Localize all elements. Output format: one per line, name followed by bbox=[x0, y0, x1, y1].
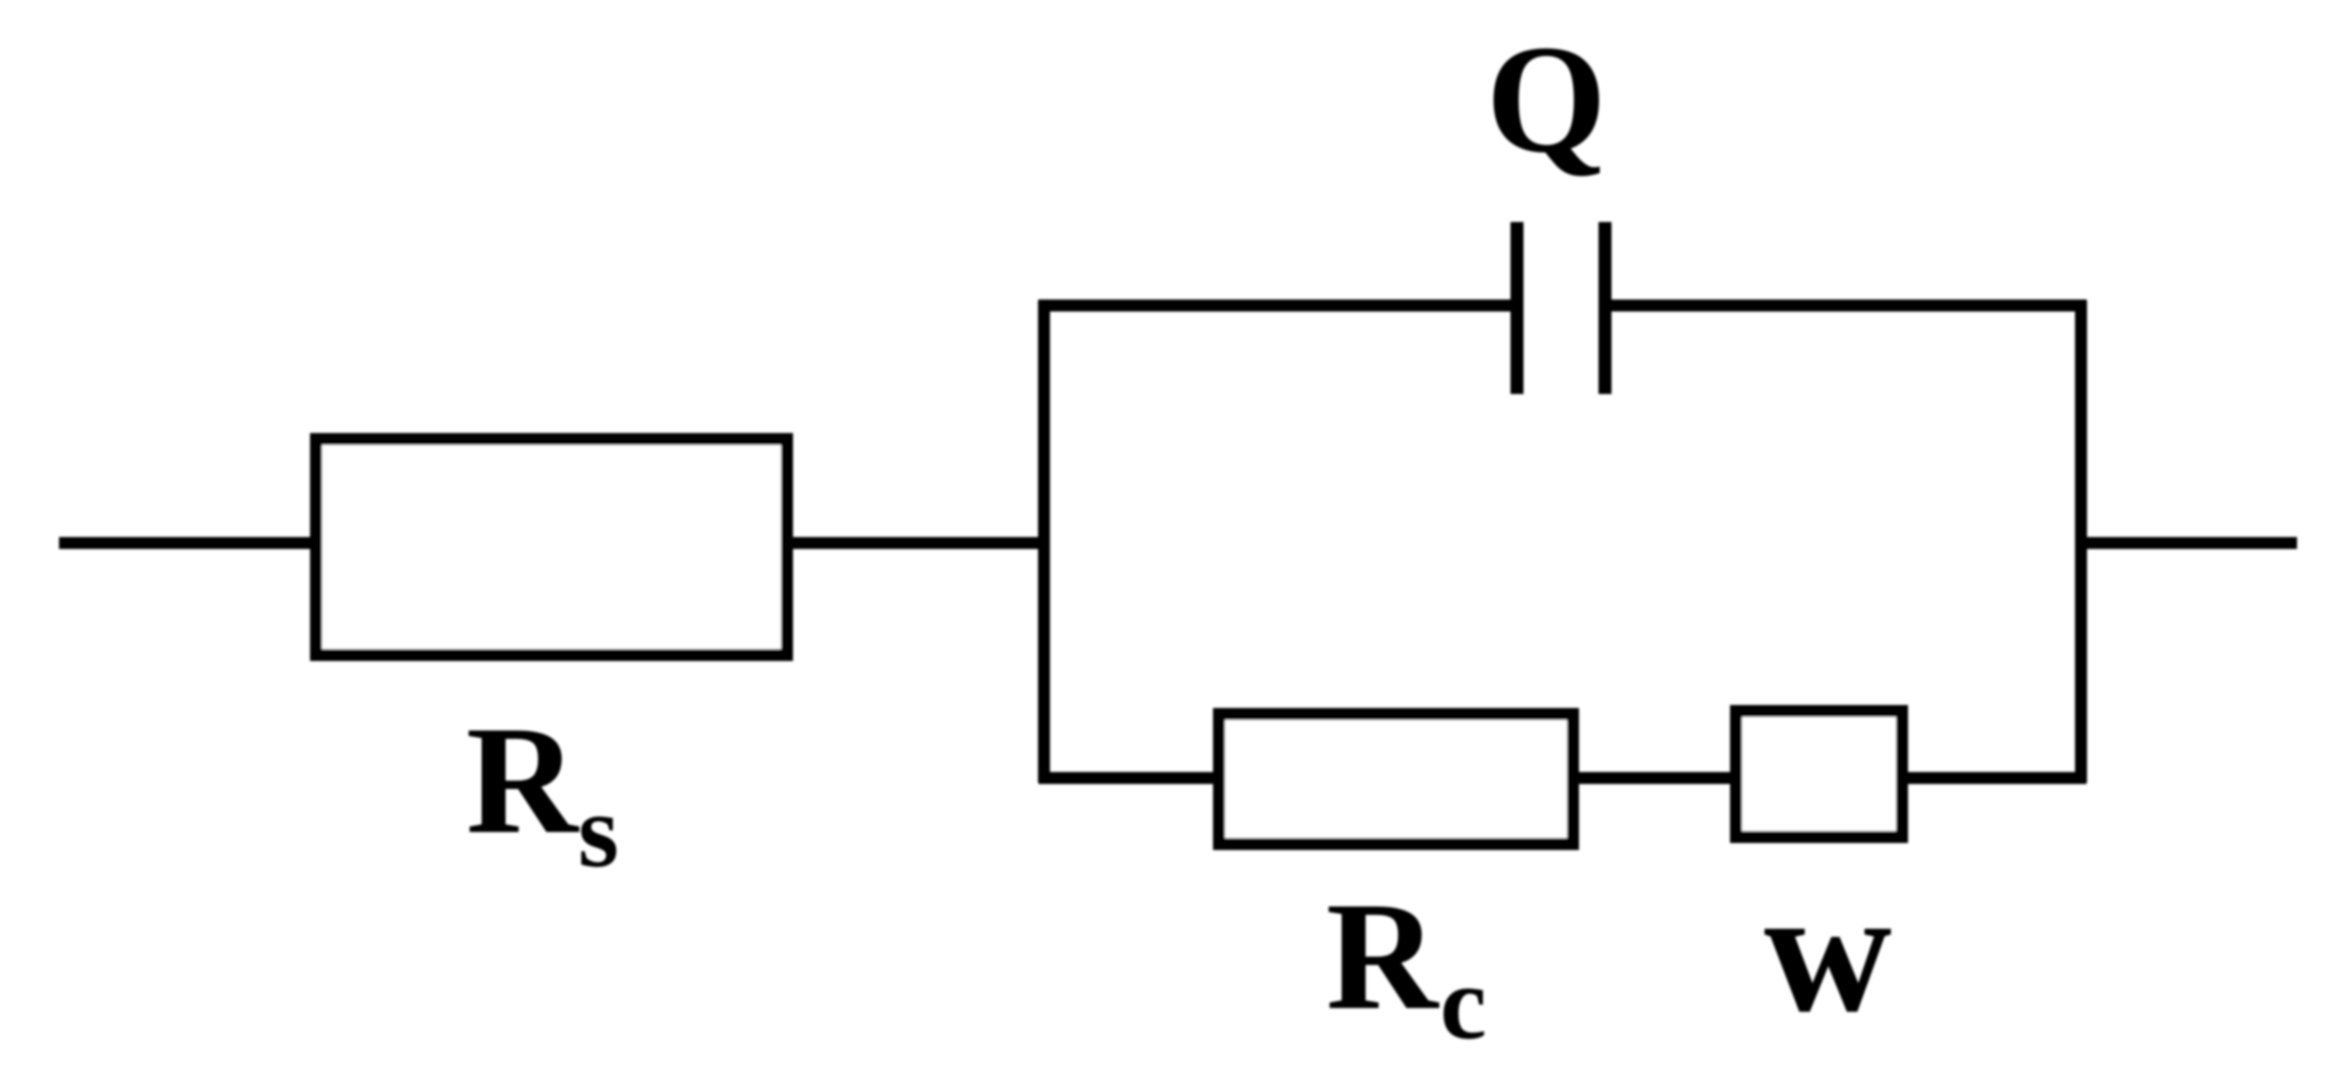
wire: Rs to parallel block bbox=[787, 537, 1049, 549]
wire: W to right vertical bbox=[1897, 772, 2087, 784]
label Rc bbox=[1326, 870, 1487, 1061]
wire: parallel block right vertical bbox=[2075, 300, 2087, 783]
svg-text:Q: Q bbox=[1486, 13, 1607, 185]
svg-text:w: w bbox=[1764, 853, 1892, 1049]
wire: parallel block left vertical bbox=[1038, 300, 1050, 783]
svg-text:R: R bbox=[1326, 870, 1440, 1042]
wire: top branch right segment bbox=[1605, 300, 2087, 312]
label Rs bbox=[466, 694, 619, 889]
svg-text:R: R bbox=[466, 694, 580, 866]
wire: left input lead bbox=[59, 537, 321, 549]
wire: top branch left segment bbox=[1039, 300, 1518, 312]
wire: Rc to W bbox=[1573, 772, 1741, 784]
svg-text:c: c bbox=[1440, 944, 1487, 1061]
wire: right output lead bbox=[2081, 537, 2297, 549]
wire: bottom branch left segment bbox=[1039, 772, 1225, 784]
resistor Rc bbox=[1219, 714, 1573, 844]
Warburg element W bbox=[1736, 711, 1902, 837]
svg-text:s: s bbox=[578, 772, 619, 889]
capacitor Q (CPE) plates bbox=[1517, 222, 1605, 394]
resistor Rs bbox=[316, 439, 787, 655]
